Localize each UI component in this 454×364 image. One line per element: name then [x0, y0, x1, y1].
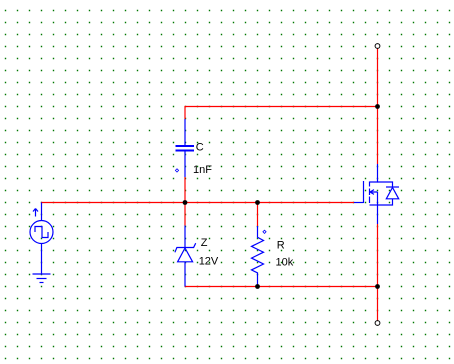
label R [277, 240, 285, 252]
wire resistor top vertical [257, 203, 259, 227]
channel segment bottom [369, 197, 371, 204]
wire top rail y=106.5 [185, 106, 378, 108]
channel segment middle [369, 189, 371, 196]
resistor R [252, 226, 267, 285]
junction node at bottom rail/source [375, 284, 380, 289]
svg-text:10k: 10k [276, 256, 294, 268]
channel segment top [369, 182, 371, 187]
voltage source V1 pulse [30, 203, 53, 275]
label Z [201, 237, 208, 249]
source lead down [377, 205, 379, 224]
label 10k [276, 256, 294, 268]
wire capacitor top vertical [184, 106, 186, 119]
label 1nF [193, 164, 212, 176]
label C [196, 142, 204, 154]
wire drain vertical (terminal to mosfet) [377, 49, 379, 165]
zener diode Z [175, 226, 196, 287]
capacitor C [175, 119, 194, 177]
drain connection [370, 164, 378, 182]
label 12V [199, 256, 219, 268]
junction node at resistor/main wire [255, 200, 260, 205]
transistor M1 n-channel mosfet with body diode [354, 164, 399, 224]
source connection [377, 192, 379, 205]
junction node at resistor/bottom rail [255, 284, 260, 289]
junction node at top rail/drain [375, 104, 380, 109]
body diode wiring [378, 182, 393, 187]
body diode triangle [386, 188, 398, 199]
source arrow [370, 190, 378, 195]
svg-text:Z: Z [201, 237, 208, 249]
wire zener top vertical [184, 203, 186, 226]
wire bottom rail y=286.5 [185, 286, 378, 288]
svg-text:12V: 12V [199, 256, 219, 268]
wire source vertical (mosfet to terminal) [377, 224, 379, 321]
svg-text:C: C [196, 142, 204, 154]
ground [33, 274, 51, 283]
terminal top (open pin) [375, 44, 380, 49]
gate lead [354, 202, 364, 204]
junction node at capacitor/main wire [183, 200, 188, 205]
body diode cathode bar [386, 186, 399, 188]
gate bar [363, 181, 365, 203]
terminal bottom (open pin) [375, 321, 380, 326]
svg-text:1nF: 1nF [193, 164, 212, 176]
svg-text:R: R [277, 240, 285, 252]
wire main horizontal node at y=202.5 from source to gate [41, 202, 354, 204]
wire capacitor bottom vertical [184, 177, 186, 203]
